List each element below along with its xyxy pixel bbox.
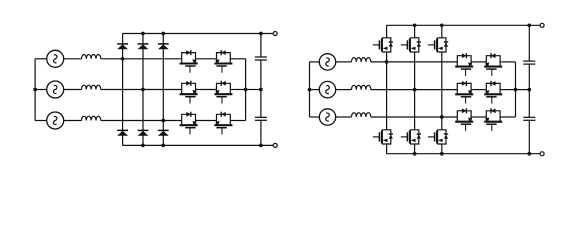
junction dots bottom bus bbox=[141, 144, 145, 148]
wire phase a between switches (right) bbox=[471, 61, 486, 63]
capacitor C4 bbox=[523, 117, 535, 120]
switch T5 (MOSFET with antiparallel diode) bbox=[401, 130, 421, 144]
bridge leg wire 1 (right) bbox=[386, 25, 388, 153]
wire neutral to source Va bbox=[35, 58, 47, 60]
junction dots top bus bbox=[141, 32, 145, 36]
wire source Vb2 to inductor Lb2 bbox=[336, 89, 352, 91]
bottom DC bus wire bbox=[123, 144, 274, 146]
wire neutral to source Vc2 bbox=[310, 116, 320, 118]
wire phase c to output bus (right) bbox=[500, 116, 515, 118]
junction node phase b / leg 2 bbox=[141, 88, 145, 92]
wire phase b between switches bbox=[196, 89, 217, 91]
inductor La2 bbox=[352, 58, 371, 62]
switch S2 (MOSFET with antiparallel diode) bbox=[214, 50, 232, 73]
AC source Va2 bbox=[319, 54, 335, 70]
wire phase a line bbox=[101, 58, 182, 60]
neutral bus wire (right) bbox=[309, 62, 311, 117]
wire phase c line bbox=[101, 120, 182, 122]
rectifier leg wire 3 bbox=[162, 34, 164, 146]
switch T1 (MOSFET with antiparallel diode) bbox=[373, 38, 393, 52]
switch S3 (MOSFET with antiparallel diode) bbox=[180, 81, 198, 104]
wire phase b line bbox=[101, 89, 182, 91]
switch T6 (MOSFET with antiparallel diode) bbox=[428, 130, 448, 144]
wire phase b to output bus (right) bbox=[500, 89, 515, 91]
AC source Va bbox=[47, 50, 64, 67]
diode D6 bbox=[158, 130, 169, 135]
junction node phase c / leg 3 (right) bbox=[440, 115, 444, 119]
bottom DC bus wire (right) bbox=[387, 153, 540, 155]
inductor Lc2 bbox=[352, 113, 371, 117]
inductor Lb bbox=[82, 85, 101, 89]
wire source Vb to inductor Lb bbox=[64, 89, 82, 91]
diode D4 bbox=[117, 130, 128, 135]
neutral bus wire bbox=[34, 59, 36, 121]
diode D1 bbox=[117, 44, 128, 49]
wire phase a to output bus bbox=[230, 58, 245, 60]
wire neutral to source Vb bbox=[35, 89, 47, 91]
switch T2 (MOSFET with antiparallel diode) bbox=[401, 38, 421, 52]
switch S6 (MOSFET with antiparallel diode) bbox=[214, 112, 232, 135]
capacitor C2 bbox=[255, 117, 267, 120]
junction node phase c / leg 3 bbox=[161, 119, 165, 123]
diode D2 bbox=[138, 44, 149, 49]
AC source Vb bbox=[47, 81, 64, 98]
diode D5 bbox=[138, 130, 149, 135]
wire source Va2 to inductor La2 bbox=[336, 61, 352, 63]
wire midpoint link to capacitor bus (right) bbox=[516, 89, 530, 91]
switch S5 (MOSFET with antiparallel diode) bbox=[180, 112, 198, 135]
switch S9 (MOSFET with antiparallel diode) bbox=[455, 81, 473, 104]
wire source Vc to inductor Lc bbox=[64, 120, 82, 122]
switch S12 (MOSFET with antiparallel diode) bbox=[484, 108, 502, 131]
output terminal + (right circuit) bbox=[540, 23, 544, 27]
junction capacitor midpoint bbox=[259, 88, 263, 92]
wire neutral to source Va2 bbox=[310, 61, 320, 63]
junction capacitor midpoint (right) bbox=[527, 88, 531, 92]
AC source Vc bbox=[47, 112, 64, 129]
inductor Lb2 bbox=[352, 85, 371, 89]
AC source Vc2 bbox=[319, 109, 335, 125]
top DC bus wire (right) bbox=[387, 24, 540, 26]
wire phase c between switches (right) bbox=[471, 116, 486, 118]
top DC bus wire bbox=[123, 33, 274, 35]
output terminal - (left circuit) bbox=[273, 143, 277, 147]
capacitor bus wire middle bbox=[260, 60, 262, 117]
switch S4 (MOSFET with antiparallel diode) bbox=[214, 81, 232, 104]
wire phase b line (right) bbox=[371, 89, 458, 91]
wire midpoint link to capacitor bus bbox=[246, 89, 261, 91]
capacitor C3 bbox=[523, 61, 535, 64]
switch T4 (MOSFET with antiparallel diode) bbox=[373, 130, 393, 144]
wire source Vc2 to inductor Lc2 bbox=[336, 116, 352, 118]
junction switch bus / phase b (right) bbox=[514, 88, 518, 92]
capacitor bus wire middle (right) bbox=[528, 64, 530, 117]
wire phase a to output bus (right) bbox=[500, 61, 515, 63]
switch S10 (MOSFET with antiparallel diode) bbox=[484, 81, 502, 104]
switch S7 (MOSFET with antiparallel diode) bbox=[455, 53, 473, 76]
wire neutral to source Vb2 bbox=[310, 89, 320, 91]
wire phase b to output bus bbox=[230, 89, 245, 91]
output terminal - (right circuit) bbox=[540, 152, 544, 156]
junction switch bus / phase b bbox=[244, 88, 248, 92]
wire phase a between switches bbox=[196, 58, 217, 60]
junction neutral / phase b (right) bbox=[308, 88, 312, 92]
switch output bus wire (right) bbox=[515, 62, 517, 117]
junction node phase a / leg 1 (right) bbox=[385, 60, 389, 64]
output terminal + (left circuit) bbox=[273, 32, 277, 36]
AC source Vb2 bbox=[319, 81, 335, 97]
wire phase a line (right) bbox=[371, 61, 458, 63]
junction neutral / phase b bbox=[33, 88, 37, 92]
wire phase c line (right) bbox=[371, 116, 458, 118]
rectifier leg wire 1 bbox=[122, 34, 124, 146]
inductor Lc bbox=[82, 116, 101, 120]
bridge leg wire 3 (right) bbox=[441, 25, 443, 153]
diode D3 bbox=[158, 44, 169, 49]
wire phase c between switches bbox=[196, 120, 217, 122]
capacitor bus wire lower bbox=[260, 120, 262, 145]
switch S8 (MOSFET with antiparallel diode) bbox=[484, 53, 502, 76]
junction dots top bus (right) bbox=[413, 23, 417, 27]
bridge leg wire 2 (right) bbox=[414, 25, 416, 153]
capacitor bus wire upper (right) bbox=[528, 25, 530, 61]
capacitor bus wire lower (right) bbox=[528, 120, 530, 153]
wire phase c to output bus bbox=[230, 120, 245, 122]
capacitor bus wire upper bbox=[260, 34, 262, 58]
wire source Va to inductor La bbox=[64, 58, 82, 60]
wire neutral to source Vc bbox=[35, 120, 47, 122]
rectifier leg wire 2 bbox=[142, 34, 144, 146]
junction dots bottom bus (right) bbox=[413, 152, 417, 156]
switch S1 (MOSFET with antiparallel diode) bbox=[180, 50, 198, 73]
wire phase b between switches (right) bbox=[471, 89, 486, 91]
inductor La bbox=[82, 54, 101, 58]
switch output bus wire bbox=[245, 59, 247, 121]
junction node phase b / leg 2 (right) bbox=[413, 88, 417, 92]
capacitor C1 bbox=[255, 57, 267, 60]
switch S11 (MOSFET with antiparallel diode) bbox=[455, 108, 473, 131]
switch T3 (MOSFET with antiparallel diode) bbox=[428, 38, 448, 52]
junction node phase a / leg 1 bbox=[121, 57, 125, 61]
